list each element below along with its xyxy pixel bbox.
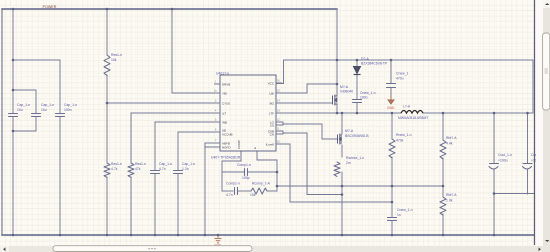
wire: rail x131 [130, 113, 132, 163]
wire: diode branch top [356, 60, 358, 66]
U1 pin names bottom [237, 140, 257, 149]
wire: divider bottom [442, 214, 444, 235]
junction at 107,9 [106, 8, 109, 11]
junction at 13,235 [12, 234, 15, 237]
svg-text:100p: 100p [242, 176, 250, 180]
diode D BZX384 [354, 67, 361, 75]
wire: rail x60 lower [59, 117, 61, 235]
wire: SW line east of inductor [337, 60, 533, 113]
junction at 527.5,113 [526, 112, 529, 115]
svg-text:Cnew_1-n: Cnew_1-n [360, 91, 376, 95]
junction at 277,186 [276, 185, 279, 188]
junction at 107,103 [106, 102, 109, 105]
svg-text:470u: 470u [396, 77, 404, 81]
svg-text:Rbt?-A: Rbt?-A [446, 136, 457, 140]
svg-text:ILserff: ILserff [266, 142, 274, 146]
wire: M2 source to sense [341, 145, 343, 157]
capacitor Comp 100p [245, 169, 248, 176]
svg-text:470k: 470k [396, 139, 404, 143]
wire: left border vertical [1, 9, 3, 235]
wire: rail x107 from bus to R10k [106, 9, 108, 55]
wire: Cbulk to gnd [390, 88, 392, 96]
svg-text:M?-A: M?-A [340, 85, 349, 89]
resistor R divider bottom [440, 197, 446, 215]
svg-text:MWSA0518-6R8MT: MWSA0518-6R8MT [398, 116, 428, 120]
svg-text:Rcomp_1-A: Rcomp_1-A [252, 182, 271, 186]
capacitor Cnew 100n [353, 100, 362, 103]
junction at 494,193.5 [493, 192, 496, 195]
ground symbol at bottom bus [215, 235, 222, 243]
svg-text:CH: CH [270, 133, 274, 137]
wire: top POWER bus [2, 8, 337, 10]
svg-text:4.4k: 4.4k [446, 142, 453, 146]
svg-text:Cap_1-n: Cap_1-n [17, 103, 30, 107]
svg-text:+100u: +100u [498, 159, 508, 163]
U1 pin names left [222, 82, 233, 149]
wire: rail x107 mid [106, 75, 108, 163]
resistor R 10k [104, 55, 110, 76]
U1 pin stubs right [276, 83, 282, 144]
capacitor C2 10u [32, 114, 41, 117]
U1 pin names right [266, 81, 275, 146]
svg-text:D?-A: D?-A [361, 57, 369, 61]
wire: rail x13 lower [12, 117, 14, 235]
svg-text:Rnew_1-n: Rnew_1-n [396, 133, 412, 137]
wire: output rail 1 lower [493, 170, 495, 235]
wire: BO to M1 gate [276, 102, 332, 104]
junction at 13,90 [12, 89, 15, 92]
capacitor C 4.7n [151, 171, 160, 174]
wire: net to pin ILT [131, 112, 214, 114]
wire: rail x178 [177, 132, 179, 170]
wire: diode to cap [356, 74, 358, 99]
wire: M2 drain from SW [341, 113, 343, 134]
svg-text:ILT: ILT [222, 111, 226, 115]
svg-text:BZX384C6V8-TP: BZX384C6V8-TP [361, 62, 388, 66]
wire: rail x155 lower [154, 174, 156, 235]
wire: comp RC mid [238, 190, 251, 192]
capacitor Cout1 100u polarized [489, 164, 499, 170]
svg-text:10u: 10u [17, 108, 23, 112]
resistor R sense 2m [334, 162, 340, 176]
svg-text:4.7n: 4.7n [226, 193, 233, 197]
svg-text:LTF: LTF [269, 111, 274, 115]
wire: divider drop [442, 113, 444, 140]
svg-text:LBI: LBI [269, 91, 274, 95]
junction at 494,235 [493, 234, 496, 237]
junction at 357,113 [356, 112, 359, 115]
svg-text:L?-A: L?-A [403, 105, 411, 109]
svg-text:Cap_1-n: Cap_1-n [159, 162, 172, 166]
svg-text:U401?-n: U401?-n [216, 72, 229, 76]
svg-text:U40?-TPS5433IDR: U40?-TPS5433IDR [211, 156, 241, 160]
junction at 494,113 [493, 112, 496, 115]
svg-text:10k: 10k [111, 58, 117, 62]
svg-text:10u: 10u [41, 108, 47, 112]
capacitor Cout2 100u polarized [523, 164, 533, 170]
wire: analog gnd run [277, 185, 443, 187]
svg-text:4.7k: 4.7k [111, 167, 118, 171]
svg-text:CS: CS [270, 124, 274, 128]
svg-text:47k: 47k [135, 167, 141, 171]
junction at 155,235 [154, 234, 157, 237]
wire: branch to C3 [13, 60, 60, 113]
wire: Cbulk branch [390, 60, 392, 83]
svg-text:10k: 10k [250, 193, 256, 197]
wire: bottom GND bus [2, 234, 534, 236]
resistor R 4.7k [104, 163, 110, 177]
wire: sense chain to bus [341, 172, 343, 235]
sheet border [534, 0, 536, 245]
horizontal scrollbar [0, 246, 550, 252]
wire: jog to C2 top [13, 90, 36, 113]
svg-text:INB: INB [222, 120, 227, 124]
wire: rail x178 lower [177, 174, 179, 235]
junction at 443,235 [442, 234, 445, 237]
svg-text:100n: 100n [360, 96, 368, 100]
wire: output rail 2 [527, 113, 529, 163]
wire: net to pin INB [155, 121, 214, 123]
capacitor C 1.2n [174, 171, 183, 174]
junction at 178,235 [177, 234, 180, 237]
junction at 218,235 [217, 234, 220, 237]
capacitor C snubber 1n [388, 218, 397, 221]
junction at 13,60 [12, 59, 15, 62]
junction at 107,235 [106, 234, 109, 237]
junction at 337,113 [336, 112, 339, 115]
wire: comp RC right [267, 160, 277, 191]
svg-text:mDB040: mDB040 [340, 90, 353, 94]
svg-text:Cout_1-n: Cout_1-n [498, 153, 512, 157]
junction at 392,186 [391, 185, 394, 188]
wire: snubber cap to bus [391, 221, 393, 235]
capacitor Cbulk 470u [387, 84, 396, 88]
junction at 342,194.5 [341, 193, 344, 196]
wire: comp RC branch left [222, 190, 233, 192]
svg-text:Rsense_1-n: Rsense_1-n [346, 156, 364, 160]
junction at 13,131 [12, 130, 15, 133]
IC U401 box [220, 75, 276, 151]
svg-text:VCC: VCC [268, 81, 275, 85]
wire: output return [494, 193, 534, 195]
inductor L1 [401, 111, 423, 114]
wire: rail x107 lower [106, 177, 108, 235]
svg-text:COMP: COMP [237, 140, 241, 149]
svg-text:Res1-n: Res1-n [135, 162, 146, 166]
wire: CSB net down [283, 133, 342, 195]
junction at 205,235 [204, 234, 207, 237]
svg-text:Comp1-n: Comp1-n [226, 182, 240, 186]
svg-text:GND: GND [387, 106, 395, 110]
junction at 391,60 [390, 59, 393, 62]
junction at 337,60 [336, 59, 339, 62]
wire: gate net to M2 [283, 124, 337, 139]
svg-text:CYG0: CYG0 [222, 101, 231, 105]
wire: net to pin CYG0 [107, 102, 214, 104]
wire: rail x155 [154, 122, 156, 170]
resistor Rcomp 10k [251, 188, 267, 194]
junction at 131,235 [130, 234, 133, 237]
wire: tie down to bus [204, 143, 206, 235]
wire: YBI drop from top bus [172, 9, 214, 93]
wire: output rail 1 upper [493, 113, 495, 163]
transistor M2 [338, 134, 343, 145]
svg-text:YBI: YBI [222, 91, 227, 95]
wire: cap to SW [356, 103, 358, 113]
capacitor C1 10u [9, 114, 18, 117]
junction at 342,186 [341, 185, 344, 188]
wire: power drop from top bus [336, 9, 338, 95]
svg-text:M?-A: M?-A [345, 129, 354, 133]
U1 pin numbers [214, 80, 280, 144]
svg-text:4.7n: 4.7n [159, 167, 166, 171]
svg-text:Cap_1-n: Cap_1-n [41, 103, 54, 107]
wire: ABFB HGFD tie [205, 143, 214, 147]
junction at 392,113 [391, 112, 394, 115]
ground symbol at Cbulk [388, 96, 394, 104]
svg-text:2m: 2m [346, 161, 351, 165]
junction at 443,186 [442, 185, 445, 188]
wire: divider mid [442, 158, 444, 197]
junction at 357,60 [356, 59, 359, 62]
junction at 342,113 [341, 112, 344, 115]
resistor R snubber 470k [389, 139, 395, 158]
wire: snubber drop [391, 113, 393, 139]
resistor R divider top [440, 140, 446, 159]
junction at 172,9 [171, 8, 174, 11]
svg-text:Res1-n: Res1-n [111, 162, 122, 166]
capacitor C3 100n [56, 114, 65, 117]
svg-text:1.2n: 1.2n [182, 167, 189, 171]
wire: VCC to upper rail [276, 60, 337, 84]
svg-text:Cnew_1-n: Cnew_1-n [397, 208, 413, 212]
wire: rail x13 upper [12, 9, 14, 113]
wire: output rail 2 lower [527, 170, 529, 194]
svg-text:100n: 100n [64, 108, 72, 112]
svg-text:Rbt?-A: Rbt?-A [446, 193, 457, 197]
wire: LO CS tie [276, 122, 283, 125]
svg-text:1n: 1n [397, 213, 401, 217]
wire: jog C2 bottom [13, 117, 36, 131]
wire: rail x131 lower [130, 177, 132, 235]
wire: comp loop top [222, 161, 241, 191]
svg-text:1.0k: 1.0k [446, 199, 453, 203]
svg-text:Cap_1-n: Cap_1-n [182, 162, 195, 166]
svg-text:Comp1-n: Comp1-n [237, 163, 251, 167]
junction at 443,113 [442, 112, 445, 115]
value labels blue [17, 53, 545, 217]
wire: snubber mid [391, 157, 393, 217]
svg-text:POWER: POWER [43, 5, 57, 9]
wire: LBI step to power node [276, 84, 337, 93]
svg-text:Cap_1-n: Cap_1-n [64, 103, 77, 107]
wire: CSB CH tie [276, 131, 283, 134]
capacitor Comp 4.7n [235, 188, 238, 195]
svg-text:DRVB: DRVB [222, 82, 230, 86]
svg-text:E: E [253, 147, 257, 149]
svg-text:BSC0904NSI-B: BSC0904NSI-B [345, 134, 369, 138]
junction at 392,202 [391, 201, 394, 204]
svg-text:Cnew_1: Cnew_1 [396, 72, 409, 76]
wire: ILserff pin net [276, 144, 392, 202]
wire: SW line from pin LTF [276, 112, 401, 114]
svg-text:VCCNB: VCCNB [222, 132, 233, 136]
junction at 337,84 [336, 83, 339, 86]
svg-text:BO: BO [270, 101, 275, 105]
junction at 60,235 [59, 234, 62, 237]
junction at 342,235 [341, 234, 344, 237]
wire: COMP pin stub [240, 151, 242, 161]
transistor M1 [333, 95, 338, 106]
wire: comp cap branch right [248, 171, 277, 173]
wire: M1 source to SW [336, 105, 338, 113]
wire: E pin path [257, 151, 277, 160]
wire: comp cap branch [222, 171, 244, 173]
junction at 13,9 [12, 8, 15, 11]
resistor R 47k [128, 163, 134, 177]
svg-text:Res1-n: Res1-n [111, 53, 122, 57]
wire: net to pin SE [178, 131, 214, 133]
junction at 277,172 [276, 171, 279, 174]
U1 pin stubs left [214, 84, 220, 147]
svg-text:HGFD: HGFD [222, 145, 231, 149]
vertical scrollbar [536, 0, 550, 246]
junction at 392,235 [391, 234, 394, 237]
